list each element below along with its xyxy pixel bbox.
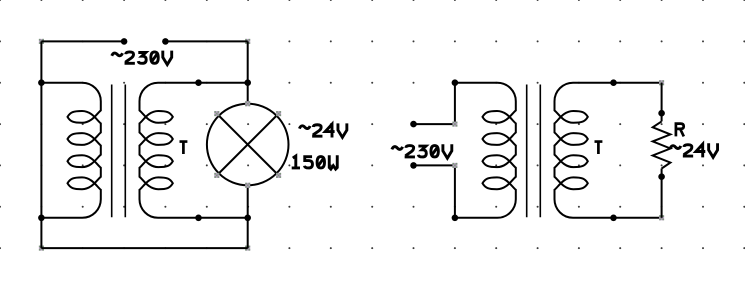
wire: left circuit left vertical bbox=[40, 41, 42, 248]
terminal marker: upper stub corner bbox=[452, 122, 457, 127]
terminal marker: left circuit top-left corner bbox=[39, 39, 44, 44]
junction: primary top left bbox=[38, 79, 45, 86]
wire: left circuit right vertical upper bbox=[247, 41, 249, 104]
wire: secondary top to lamp branch bbox=[199, 82, 248, 84]
junction: secondary bottom bbox=[195, 215, 202, 222]
wire: right circuit bottom bbox=[614, 217, 662, 219]
label ~230V (left circuit source) bbox=[112, 53, 123, 56]
terminal marker: resistor branch top corner bbox=[659, 80, 664, 85]
junction: secondary top bbox=[195, 79, 202, 86]
label R bbox=[676, 124, 684, 137]
node: right source terminal lower bbox=[410, 162, 417, 169]
transformer T2 secondary winding bbox=[555, 83, 614, 218]
terminal marker: resistor branch bottom corner bbox=[659, 215, 664, 220]
terminal marker: left circuit bottom-right corner bbox=[245, 246, 250, 251]
transformer T2 primary winding bbox=[455, 83, 516, 218]
wire: right circuit upper terminal lead bbox=[414, 123, 455, 125]
transformer T1 secondary winding bbox=[140, 83, 199, 218]
lamp cross marker NE bbox=[276, 111, 281, 116]
lamp cross marker SE bbox=[276, 173, 281, 178]
lamp E1 cross bbox=[218, 115, 278, 175]
junction: right stub bottom bbox=[452, 215, 459, 222]
junction: right stub top bbox=[452, 79, 459, 86]
wire: resistor branch upper bbox=[661, 83, 663, 122]
label ~24V (lamp) bbox=[299, 126, 310, 129]
wire: secondary top to resistor branch bbox=[614, 82, 662, 84]
lamp cross marker SW bbox=[214, 173, 219, 178]
lamp terminal marker bottom bbox=[245, 183, 250, 188]
wire: resistor branch lower bbox=[661, 169, 663, 218]
wire: right circuit lower terminal lead bbox=[414, 164, 455, 166]
wire: left circuit top-right segment bbox=[165, 40, 247, 42]
junction: lamp branch top bbox=[244, 79, 251, 86]
wire: right circuit upper stub bbox=[454, 83, 456, 124]
terminal marker: left circuit bottom-left corner bbox=[39, 246, 44, 251]
resistor R terminal dot top bbox=[658, 110, 665, 117]
wire: right circuit lower stub bbox=[454, 165, 456, 217]
terminal marker: left circuit top-right corner bbox=[245, 39, 250, 44]
lamp E1 circle bbox=[207, 104, 289, 186]
lamp terminal marker top bbox=[245, 101, 250, 106]
resistor R zigzag bbox=[653, 121, 671, 168]
wire: secondary bottom to lamp branch bbox=[199, 217, 248, 219]
lamp cross marker NW bbox=[214, 111, 219, 116]
junction: right secondary bottom bbox=[610, 215, 617, 222]
label T (left transformer) bbox=[180, 142, 188, 154]
wire: left circuit bottom bbox=[41, 247, 247, 249]
junction: right secondary top bbox=[610, 79, 617, 86]
transformer T1 primary winding bbox=[41, 83, 100, 218]
junction: lamp branch bottom bbox=[244, 215, 251, 222]
label ~24V (resistor) bbox=[670, 146, 681, 149]
node: AC source terminal right bbox=[162, 38, 169, 45]
label 150W (lamp) bbox=[292, 156, 300, 168]
node: right source terminal upper bbox=[410, 121, 417, 128]
junction: primary bottom left bbox=[38, 215, 45, 222]
resistor R terminal dot bottom bbox=[658, 173, 665, 180]
wire: left circuit right vertical lower bbox=[247, 185, 249, 248]
terminal marker: lower stub corner bbox=[452, 163, 457, 168]
wire: left circuit top-left segment bbox=[41, 40, 124, 42]
label ~230V (right circuit source) bbox=[392, 147, 403, 150]
transformer T1 core bbox=[112, 85, 126, 218]
transformer T2 core bbox=[527, 85, 541, 218]
label T (right transformer) bbox=[595, 142, 603, 154]
node: AC source terminal left bbox=[121, 38, 128, 45]
